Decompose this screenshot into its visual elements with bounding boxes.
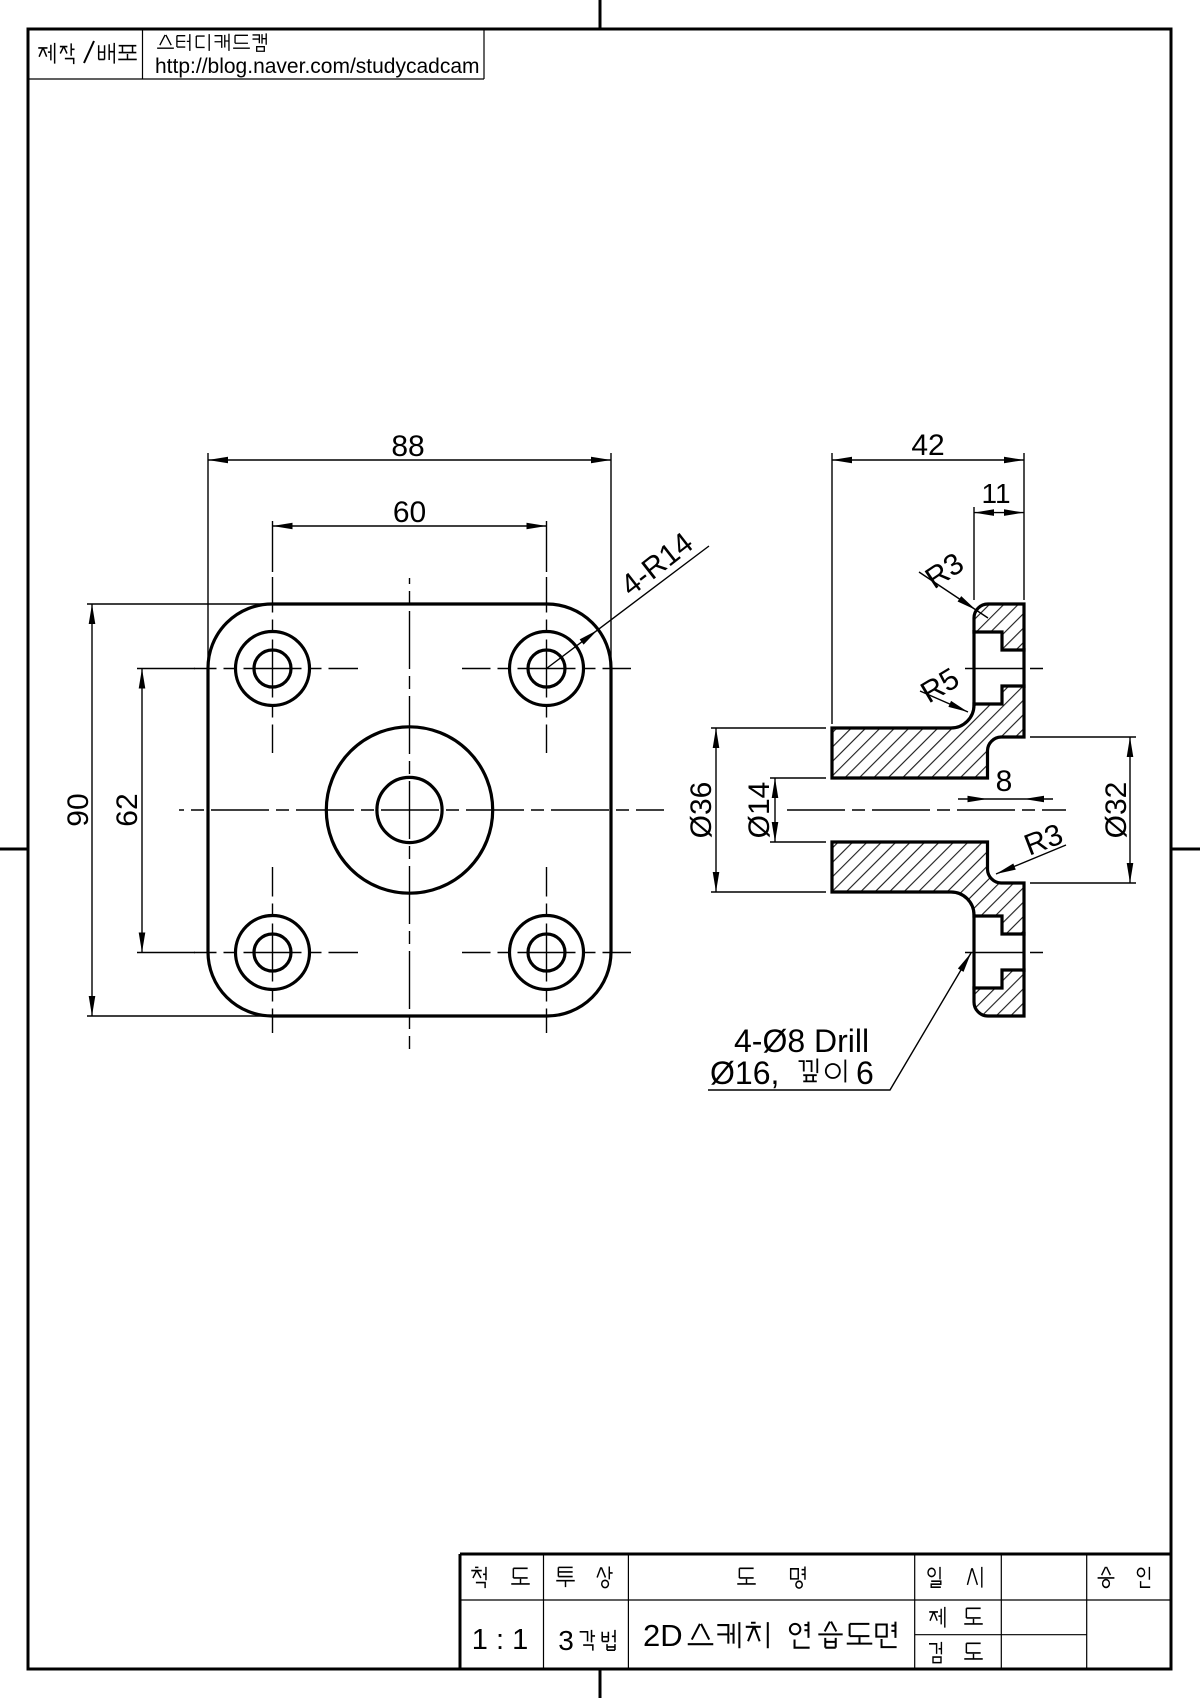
svg-text:42: 42 (911, 429, 944, 462)
svg-text:Ø16,: Ø16, (710, 1055, 779, 1091)
svg-text:Ø32: Ø32 (1100, 782, 1133, 839)
svg-text:3: 3 (558, 1625, 574, 1656)
svg-text:8: 8 (996, 765, 1013, 798)
svg-text:2D: 2D (643, 1618, 683, 1653)
svg-text:1 : 1: 1 : 1 (472, 1624, 528, 1656)
svg-text:6: 6 (856, 1055, 874, 1091)
svg-text:11: 11 (981, 478, 1010, 509)
svg-text:http://blog.naver.com/studycad: http://blog.naver.com/studycadcam (155, 55, 480, 78)
svg-text:88: 88 (391, 430, 424, 463)
svg-text:60: 60 (393, 496, 426, 529)
svg-text:4-Ø8 Drill: 4-Ø8 Drill (734, 1023, 869, 1059)
svg-text:Ø14: Ø14 (743, 782, 776, 839)
svg-text:Ø36: Ø36 (685, 782, 718, 839)
svg-text:90: 90 (62, 793, 95, 826)
svg-text:62: 62 (111, 793, 144, 826)
